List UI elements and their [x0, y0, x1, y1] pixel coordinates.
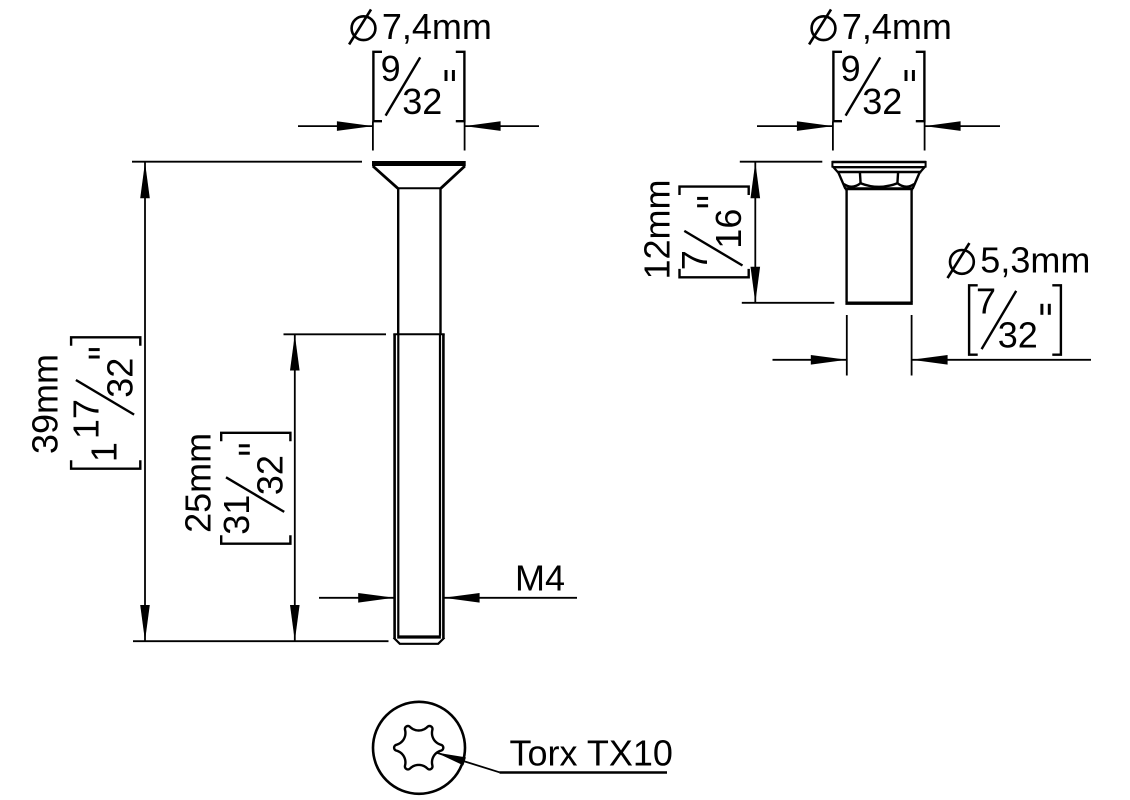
bracket [7/32"] — [969, 285, 1061, 354]
sleeve head cone sides (right view) — [838, 172, 845, 189]
dimension line Ø7,4mm (left view) — [298, 122, 539, 151]
sleeve head flange (right view) — [832, 161, 925, 164]
dimension 25mm: extension and dimension lines — [284, 334, 387, 641]
svg-text:39mm: 39mm — [25, 354, 66, 454]
dimension line Ø7,4mm (right view) — [757, 122, 1000, 151]
diameter symbol of label Ø7,4mm (left view) — [352, 16, 376, 40]
threaded section (left view) — [393, 333, 444, 335]
dimension 12mm: extension and dimension lines — [740, 162, 835, 303]
torx head circle (bottom view) — [373, 702, 465, 794]
svg-text:12mm: 12mm — [636, 179, 677, 279]
svg-text:5,3mm: 5,3mm — [980, 240, 1090, 281]
thread bottom with chamfer (left view) — [397, 635, 441, 638]
svg-text:9: 9 — [841, 48, 861, 89]
bracket [9/32"] (left view top) — [373, 52, 464, 121]
screw head (left view): countersunk head — [372, 161, 466, 166]
dimension 39mm text — [25, 354, 66, 454]
bracket [9/32"] (right view top) — [833, 52, 924, 121]
svg-text:32: 32 — [862, 81, 902, 122]
svg-text:16: 16 — [708, 209, 749, 249]
dimension 12mm text — [636, 179, 677, 279]
diameter symbol of label Ø5,3mm — [950, 250, 974, 274]
dimension 39mm: extension and dimension lines — [132, 162, 389, 642]
svg-text:25mm: 25mm — [178, 433, 219, 533]
svg-text:32: 32 — [250, 455, 291, 495]
sleeve body (right view) — [845, 190, 847, 303]
svg-text:7,4mm: 7,4mm — [382, 6, 492, 47]
bracket [7/16"] rotated — [674, 187, 749, 278]
torx TX10 star recess — [394, 726, 443, 769]
svg-text:1: 1 — [84, 442, 125, 462]
svg-text:32: 32 — [100, 358, 141, 398]
screw shaft (left view) — [397, 188, 399, 334]
svg-text:31: 31 — [216, 495, 257, 535]
svg-text:M4: M4 — [515, 558, 565, 599]
dimension 25mm text — [178, 433, 219, 533]
svg-text:7,4mm: 7,4mm — [842, 6, 952, 47]
bracket [1 17/32"] rotated — [66, 337, 141, 468]
svg-text:32: 32 — [402, 81, 442, 122]
svg-text:32: 32 — [998, 315, 1038, 356]
leader arrow to torx recess — [436, 753, 466, 766]
dimension line Ø5,3mm — [773, 315, 1092, 376]
svg-text:7: 7 — [674, 250, 715, 270]
torx lobes seen on cone (right view) — [844, 172, 914, 187]
bracket [31/32"] rotated — [216, 433, 291, 544]
svg-text:Torx TX10: Torx TX10 — [510, 733, 673, 774]
diameter symbol of label Ø7,4mm (right view) — [812, 16, 836, 40]
svg-text:9: 9 — [381, 48, 401, 89]
svg-text:17: 17 — [66, 399, 107, 439]
dimension line M4 — [319, 597, 577, 599]
svg-text:7: 7 — [976, 281, 996, 322]
